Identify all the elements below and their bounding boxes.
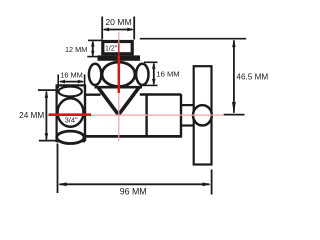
- inlet top line: [57, 84, 85, 86]
- dim 20MM extension line right: [133, 17, 135, 40]
- valve V cone right leg: [119, 88, 139, 115]
- dim 16MM left: dimension line with arrows: [58, 80, 84, 84]
- dim 12MM top tick: [88, 39, 102, 41]
- inlet top ellipse: [58, 87, 81, 97]
- ball joint circle: [193, 105, 212, 125]
- vertical centerline bright red thick segment: [118, 56, 121, 93]
- inlet bottom ellipse: [57, 131, 84, 143]
- svg-text:20 MM: 20 MM: [105, 17, 131, 27]
- svg-text:46.5 MM: 46.5 MM: [236, 72, 268, 81]
- dim 16MM right: dimension line with arrows: [152, 63, 156, 85]
- hex nut center ellipse: [102, 62, 135, 86]
- dim 96MM dimension line with arrows: [58, 182, 211, 186]
- horizontal centerline bright red segment: [49, 113, 92, 116]
- vertical centerline pink: [118, 32, 120, 141]
- svg-text:12 MM: 12 MM: [65, 45, 87, 54]
- outlet top line: [140, 93, 181, 95]
- body left shoulder: [84, 93, 101, 95]
- inlet bottom line: [57, 140, 85, 142]
- inlet middle ellipse: [58, 98, 84, 126]
- dim 46.5MM bottom tick: [224, 114, 245, 116]
- dim 24MM bottom tick: [39, 140, 56, 142]
- nut bottom line: [95, 86, 143, 89]
- dim 24MM dimension line with arrows: [45, 91, 49, 141]
- stem top line: [181, 104, 195, 106]
- dim 16MM right: top tick: [144, 61, 158, 63]
- vertical centerline bright red thin segment: [118, 44, 120, 58]
- dim 46.5MM dimension line with arrows: [232, 40, 236, 114]
- handle bar rect: [194, 66, 212, 164]
- dim 46.5MM top tick: [140, 38, 246, 40]
- dim 20MM dimension line with arrows: [102, 28, 134, 32]
- flange black strip: [98, 55, 141, 60]
- svg-text:3/4": 3/4": [65, 115, 78, 124]
- body divider vertical: [145, 95, 147, 137]
- dim 96MM extension left: [57, 144, 59, 194]
- body bottom line: [84, 135, 182, 138]
- stem bottom line: [181, 124, 195, 126]
- dim 12MM dimension line with arrows: [91, 41, 95, 57]
- dim 16MM left: extension right: [84, 75, 86, 89]
- hex nut left ellipse: [89, 64, 101, 85]
- dim 96MM extension right: [211, 170, 213, 195]
- svg-text:16 MM: 16 MM: [60, 70, 83, 79]
- hex nut right ellipse: [136, 64, 148, 85]
- inlet left edge: [55, 84, 57, 142]
- svg-text:96 MM: 96 MM: [120, 187, 147, 197]
- outlet right edge: [180, 94, 182, 138]
- dim 20MM extension line left: [101, 17, 103, 40]
- svg-text:1/2": 1/2": [105, 45, 118, 52]
- svg-text:16 MM: 16 MM: [156, 70, 179, 79]
- dim 24MM top tick: [38, 89, 58, 91]
- dim 16MM right: bottom tick: [143, 84, 158, 86]
- svg-text:24 MM: 24 MM: [19, 111, 44, 120]
- body left edge: [84, 84, 86, 141]
- dim 12MM bottom tick: [87, 56, 102, 58]
- bonnet cap rect: [103, 42, 132, 54]
- horizontal centerline pink: [49, 114, 225, 116]
- dim 16MM left: extension left: [57, 75, 59, 89]
- valve V cone left leg: [98, 88, 118, 115]
